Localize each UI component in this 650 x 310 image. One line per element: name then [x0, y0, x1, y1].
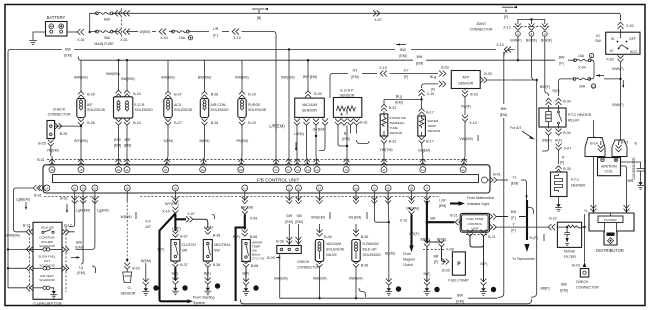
- label BW [F]: [559, 56, 565, 66]
- node igsw branch: [619, 78, 621, 80]
- rotor blob: [607, 233, 615, 236]
- connector B-37 bottom: [172, 261, 187, 268]
- fuse 20A: [573, 78, 596, 89]
- ignition coil: [598, 158, 621, 176]
- connector B-29 top: [239, 91, 256, 98]
- ground number 4: [491, 287, 496, 292]
- svg-text:PURGE: PURGE: [248, 103, 261, 107]
- node jc2: [536, 79, 538, 81]
- wire A/F to F/B: [80, 126, 82, 156]
- svg-text:FILTER: FILTER: [564, 255, 576, 259]
- svg-text:From Malfunction: From Malfunction: [467, 196, 494, 200]
- wire jc2 down to ATP line: [532, 36, 535, 80]
- node bus drange: [355, 297, 357, 299]
- svg-text:E.G.R.P: E.G.R.P: [340, 89, 354, 93]
- heavy wire starter down to bottom: [160, 249, 187, 301]
- svg-text:L/R: L/R: [213, 27, 219, 31]
- svg-text:1H: 1H: [243, 186, 246, 190]
- wire L/R down to F/B pin: [242, 32, 277, 156]
- svg-text:[EM]: [EM]: [439, 204, 446, 208]
- svg-text:BW: BW: [457, 294, 463, 298]
- wire water temp sw feed: [244, 228, 246, 231]
- wire YL vertical: [584, 214, 586, 262]
- svg-text:10A: 10A: [578, 54, 585, 58]
- connector X-01 left: [77, 29, 85, 42]
- wire into ATP: [450, 74, 453, 84]
- svg-text:2B: 2B: [126, 186, 129, 190]
- svg-text:1T: 1T: [382, 168, 385, 172]
- water temp sensor: [418, 116, 441, 136]
- svg-text:2H: 2H: [81, 186, 84, 190]
- svg-text:BW(EM): BW(EM): [121, 77, 134, 81]
- connector chevrons ATP left: [439, 81, 446, 87]
- svg-text:B-26: B-26: [87, 93, 95, 97]
- svg-text:B-08: B-08: [251, 264, 259, 268]
- svg-text:To Tachometer: To Tachometer: [512, 257, 536, 261]
- connector B-17 water temp: [419, 108, 434, 116]
- wire intake feed across: [384, 98, 422, 100]
- svg-text:IGNITION: IGNITION: [601, 165, 617, 169]
- svg-text:B-25: B-25: [38, 142, 46, 146]
- svg-text:VW(EM): VW(EM): [459, 137, 472, 141]
- node vacuum feed on bus1: [288, 48, 290, 50]
- svg-text:20A: 20A: [579, 85, 586, 89]
- arrow From starting: [186, 300, 189, 302]
- igniter leads: [605, 213, 617, 233]
- chevrons row2: [26, 265, 69, 271]
- svg-text:B-22: B-22: [549, 217, 557, 221]
- svg-text:For A/T: For A/T: [510, 126, 522, 130]
- svg-text:BR: BR: [434, 255, 439, 259]
- wires to B-39: [289, 224, 298, 246]
- svg-text:B-01: B-01: [493, 173, 501, 177]
- long A/T vertical wire: [531, 80, 537, 297]
- connector B-20 into pump: [442, 259, 450, 273]
- EGRP sensor label: [340, 89, 355, 98]
- connector vacuum bottom chevrons: [294, 119, 328, 126]
- svg-text:ACV: ACV: [174, 103, 182, 107]
- svg-text:R(F): R(F): [552, 89, 559, 93]
- heavy wire clutch ground: [174, 268, 176, 281]
- wire row1: [8, 248, 26, 250]
- svg-text:B-26: B-26: [87, 121, 95, 125]
- svg-text:B-27: B-27: [174, 121, 182, 125]
- arrow LgR: [66, 204, 68, 213]
- svg-text:[F]: [F]: [504, 15, 508, 19]
- svg-text:[EM]: [EM]: [560, 289, 567, 293]
- vacuum solenoid valve label: [326, 242, 345, 257]
- connector B-36 top: [353, 230, 368, 240]
- svg-text:IDLE-UP: IDLE-UP: [363, 248, 378, 252]
- svg-text:[EM]: [EM]: [500, 113, 507, 117]
- svg-text:BW: BW: [628, 179, 634, 183]
- svg-text:B-38: B-38: [213, 263, 221, 267]
- svg-text:Magnet: Magnet: [403, 258, 415, 262]
- svg-text:B-37: B-37: [180, 263, 188, 267]
- wires EGRP down: [338, 126, 357, 157]
- node YL: [583, 226, 585, 228]
- svg-text:IGNITER: IGNITER: [604, 218, 617, 222]
- svg-text:System: System: [193, 301, 205, 305]
- arrow L(EM): [295, 142, 297, 151]
- svg-text:[F]: [F]: [511, 216, 515, 220]
- svg-text:F/B CONTROL UNIT: F/B CONTROL UNIT: [257, 178, 300, 183]
- wire to X-04: [152, 31, 156, 33]
- wire W(EM) line: [127, 31, 138, 33]
- connector B-34 bottom: [546, 127, 571, 135]
- second bus continues: [426, 59, 555, 61]
- wire water temp to F/B: [422, 144, 423, 157]
- ground number 24: [215, 283, 220, 288]
- svg-text:BW(EM): BW(EM): [74, 76, 87, 80]
- svg-text:BW: BW: [511, 210, 517, 214]
- svg-text:1Y: 1Y: [274, 168, 277, 172]
- idle sw: [41, 226, 54, 234]
- wire GY continues: [362, 73, 377, 75]
- svg-text:1U: 1U: [421, 168, 424, 172]
- wire gy elbow: [319, 148, 325, 151]
- distributor arm chevrons: [590, 205, 596, 212]
- diamond symbol: [608, 238, 614, 244]
- svg-text:FUEL PUMP: FUEL PUMP: [448, 279, 469, 283]
- connector B-03: [124, 263, 140, 271]
- wire neutral ground: [207, 268, 209, 281]
- wire Lg from F/B pin to row2: [82, 201, 84, 240]
- svg-text:INTAKE AIR: INTAKE AIR: [390, 116, 407, 120]
- long BW vertical to bottom bus: [498, 118, 504, 298]
- svg-text:CHECK: CHECK: [576, 280, 589, 284]
- wire IG SW down: [620, 62, 622, 140]
- svg-text:SENSOR: SENSOR: [428, 129, 442, 133]
- check connector B-23 label: [576, 280, 599, 290]
- svg-text:SENSOR: SENSOR: [121, 292, 136, 296]
- ground clutch: [172, 278, 179, 295]
- wire B-39 ground to bus: [279, 254, 281, 299]
- svg-text:12: 12: [435, 288, 439, 292]
- wires EGR to F/B: [119, 126, 128, 157]
- svg-text:BW(EM): BW(EM): [106, 72, 119, 76]
- connector X-10 gr: [400, 208, 415, 223]
- label BW [EM] on bus: [64, 48, 71, 58]
- svg-text:1K: 1K: [73, 186, 76, 190]
- svg-text:SOLENOID: SOLENOID: [135, 108, 154, 112]
- svg-text:BW(EM): BW(EM): [235, 76, 248, 80]
- label BW [F]: [511, 210, 517, 220]
- svg-text:X-12: X-12: [503, 26, 511, 30]
- svg-text:SOLENOID: SOLENOID: [174, 108, 193, 112]
- bottom bus continues: [468, 297, 498, 299]
- bus BW(EM) second level: [81, 59, 413, 61]
- O2 sensor symbol: [123, 270, 132, 283]
- wire intake to F/B: [383, 144, 385, 157]
- clutch switch label: [182, 243, 197, 253]
- connector X-10 clutch: [162, 207, 178, 214]
- svg-text:GY: GY: [352, 69, 358, 73]
- svg-text:VACUUM: VACUUM: [302, 103, 317, 107]
- svg-text:HEATER: HEATER: [571, 184, 586, 188]
- wire W(EM) dashed A/T: [120, 201, 131, 260]
- condenser: [621, 162, 645, 189]
- svg-text:X-04: X-04: [578, 66, 586, 70]
- bracket B-14: [585, 138, 605, 157]
- arrow down igsw wire: [622, 80, 624, 88]
- wire B(EM) from pin 374: [374, 201, 388, 222]
- svg-text:P.T.C HEATER: P.T.C HEATER: [568, 113, 592, 117]
- svg-text:G0[EM]: G0[EM]: [418, 149, 430, 153]
- dashed line above F/B unit: [47, 159, 468, 161]
- connector B-08 bottom: [243, 261, 258, 269]
- wire LgB to carb idle sw: [14, 224, 27, 232]
- wire PURGE drop: [241, 60, 243, 91]
- fuse 10A: [568, 53, 594, 79]
- node EGRP join: [346, 145, 348, 147]
- label BL [EM]: [342, 132, 349, 142]
- svg-text:[F]: [F]: [560, 161, 564, 165]
- chevron row out of F/B bottom: [72, 197, 430, 204]
- svg-text:X-07: X-07: [374, 18, 382, 22]
- node vacuum sensor feed on bus2: [307, 59, 309, 61]
- heavy wire waterT / starter: [236, 215, 245, 302]
- svg-text:[EM]: [EM]: [416, 62, 423, 66]
- connector X-07 on top bus: [373, 10, 382, 22]
- svg-text:X-02: X-02: [626, 24, 634, 28]
- svg-text:IDLE SW: IDLE SW: [41, 226, 54, 230]
- svg-text:2F: 2F: [125, 168, 128, 172]
- check connector text: [48, 108, 71, 117]
- fuel pump control unit: [460, 213, 489, 232]
- wire loop stub: [483, 244, 485, 247]
- carb connector dashed left: [29, 226, 31, 292]
- wire pin stubs top row: [52, 156, 465, 164]
- svg-text:L/R(EM): L/R(EM): [269, 124, 285, 129]
- connector FP out bottom: [490, 224, 497, 230]
- wire B-21 loop: [470, 237, 484, 282]
- svg-text:TEMP: TEMP: [428, 124, 436, 128]
- bus BW(EM) continues right: [411, 48, 496, 50]
- connector B-26 top: [78, 91, 95, 98]
- ATP sensor: [451, 71, 480, 89]
- svg-text:BW: BW: [501, 107, 507, 111]
- svg-text:17: 17: [397, 288, 401, 292]
- svg-text:B-01: B-01: [60, 197, 68, 201]
- check connector B-39 box: [277, 246, 302, 254]
- slow fuel cut solenoid: [33, 255, 62, 270]
- svg-text:10: 10: [154, 287, 158, 291]
- joint connector dashed row: [513, 26, 550, 28]
- PTC heater B-35: [551, 172, 568, 197]
- svg-text:X-10: X-10: [469, 121, 477, 125]
- label From Starting System: [193, 296, 215, 306]
- fuse 15A: [169, 30, 209, 40]
- svg-text:CHECK: CHECK: [297, 260, 310, 264]
- connector B-36 bottom: [353, 261, 368, 268]
- PTC heater label: [571, 178, 586, 188]
- connector B-28 bottom: [202, 118, 219, 126]
- heavy wire to tach junction: [519, 216, 527, 218]
- label GY [EM]: [351, 69, 358, 79]
- wires vacuum sensor to F/B: [297, 126, 325, 157]
- svg-text:SENSOR: SENSOR: [302, 109, 317, 113]
- noise filter label: [564, 250, 576, 260]
- svg-text:30A: 30A: [104, 36, 111, 40]
- svg-text:L(EM): L(EM): [294, 132, 304, 136]
- ground inside carb: [50, 288, 57, 298]
- svg-text:COIL: COIL: [605, 170, 613, 174]
- ground battery: [29, 32, 45, 45]
- label Blg [EM]: [395, 95, 402, 105]
- svg-text:BW(EM): BW(EM): [313, 277, 326, 281]
- ground number 8: [253, 285, 258, 290]
- wire vacuum sensor feed: [307, 60, 309, 90]
- svg-text:B-27: B-27: [174, 93, 182, 97]
- svg-text:W(EM): W(EM): [139, 30, 150, 34]
- intake air temp sensor: [380, 114, 406, 136]
- svg-text:BW [EM]: BW [EM]: [303, 75, 317, 79]
- connector into noise filter: [548, 224, 555, 230]
- wire 20A line from igsw node: [604, 78, 621, 80]
- node battery feed: [89, 31, 91, 33]
- svg-text:BW: BW: [400, 48, 406, 52]
- node top bus to fuse: [112, 31, 118, 33]
- arrow B-23 up: [583, 262, 587, 267]
- svg-text:SENSOR: SENSOR: [390, 131, 404, 135]
- svg-text:[EM]: [EM]: [399, 54, 406, 58]
- svg-text:Lg(F): Lg(F): [172, 227, 180, 231]
- connector B-30: [305, 91, 322, 98]
- connector X-01 dashed boundary: [120, 8, 122, 38]
- svg-text:BW(EM): BW(EM): [161, 76, 174, 80]
- svg-text:[EM]: [EM]: [295, 220, 302, 224]
- svg-text:R: R: [562, 156, 565, 160]
- vacuum sensor: [295, 98, 325, 117]
- svg-text:YB[EM]: YB[EM]: [46, 149, 58, 153]
- svg-text:CLUTCH: CLUTCH: [182, 243, 197, 247]
- svg-text:WG(EM): WG(EM): [311, 216, 325, 220]
- wire 388 down: [387, 201, 390, 281]
- svg-text:For: For: [146, 220, 152, 224]
- connector X-07 relay out: [556, 143, 572, 151]
- connector B-01 left exit: [33, 185, 45, 198]
- wire YL out: [497, 179, 508, 181]
- ground O2 area: [142, 279, 149, 296]
- wire Blg hook from ATP: [422, 84, 438, 88]
- svg-text:[EM]: [EM]: [114, 144, 121, 148]
- connector B-28 top: [202, 91, 219, 98]
- svg-text:Y(EM): Y(EM): [163, 139, 173, 143]
- connector B-37 top: [172, 231, 187, 239]
- svg-text:BR(F): BR(F): [542, 139, 551, 143]
- svg-text:BW(EM): BW(EM): [349, 277, 362, 281]
- coasting richer solenoid: [33, 236, 62, 252]
- carb connector dashed right: [65, 226, 67, 292]
- svg-text:2D: 2D: [93, 186, 96, 190]
- wire row1 into box jog: [26, 248, 33, 250]
- heavy wire neutral branch: [175, 218, 186, 220]
- svg-text:TURE: TURE: [390, 126, 398, 130]
- heavy wire magnet clutch: [410, 215, 412, 247]
- label BW [EM] vac: [303, 75, 317, 79]
- label BW [EM] on second bus: [416, 55, 423, 65]
- svg-text:WATER: WATER: [428, 119, 439, 123]
- joint connector bracket: [518, 18, 545, 24]
- svg-text:[F]: [F]: [213, 34, 217, 38]
- svg-text:[EM]: [EM]: [342, 137, 349, 141]
- svg-text:1D: 1D: [164, 168, 167, 172]
- connector B-24 top: [116, 90, 141, 97]
- node jc1 bus2: [517, 59, 519, 61]
- svg-text:B-28: B-28: [211, 93, 219, 97]
- check connector label: [297, 260, 320, 270]
- connector B-33 right: [480, 72, 492, 83]
- svg-text:B-17: B-17: [426, 111, 434, 115]
- svg-text:BW: BW: [65, 48, 71, 52]
- bus BW(EM) continues: [74, 48, 395, 50]
- svg-text:B(F): B(F): [481, 262, 488, 266]
- svg-text:AIR CON.: AIR CON.: [211, 103, 227, 107]
- wire ACV drop: [167, 60, 169, 91]
- wire PURGE to F/B: [241, 126, 243, 157]
- svg-text:X-62: X-62: [606, 58, 614, 62]
- arrow YL down: [525, 196, 527, 200]
- fuse 80A: [96, 12, 114, 22]
- svg-text:[F]: [F]: [559, 62, 563, 66]
- marker B [F] right: [502, 6, 517, 19]
- labels BR(F) R(F): [542, 139, 562, 143]
- F/B bottom row pins: [44, 185, 430, 191]
- svg-text:2E: 2E: [117, 168, 120, 172]
- svg-text:CHECK: CHECK: [53, 108, 66, 112]
- svg-text:B-28: B-28: [211, 121, 219, 125]
- svg-text:B-29: B-29: [248, 121, 256, 125]
- svg-text:SW: SW: [595, 39, 601, 43]
- svg-text:B-23: B-23: [572, 264, 580, 268]
- distributor body: [589, 207, 634, 245]
- wire B/B from F/B pin: [76, 201, 95, 249]
- svg-text:(F): (F): [431, 88, 436, 92]
- node hv branch: [244, 226, 247, 229]
- connector X-09: [242, 208, 257, 221]
- svg-text:B-24: B-24: [133, 121, 141, 125]
- svg-text:GY: GY: [403, 69, 409, 73]
- wire A/F solenoid drop: [80, 60, 82, 91]
- bracket B-15: [612, 140, 627, 157]
- svg-text:Clutch: Clutch: [403, 263, 413, 267]
- svg-text:B-25: B-25: [60, 132, 68, 136]
- svg-text:ACC: ACC: [630, 50, 638, 54]
- connector chevrons ATP GY input: [439, 66, 449, 77]
- svg-text:DISTRIBUTOR: DISTRIBUTOR: [596, 248, 624, 253]
- svg-text:17°C ON: 17°C ON: [252, 257, 264, 261]
- svg-text:SENSOR: SENSOR: [340, 94, 355, 98]
- connector B-39 chevrons: [276, 237, 301, 244]
- svg-text:E.G.R.: E.G.R.: [135, 103, 146, 107]
- svg-text:BW(EM): BW(EM): [198, 76, 211, 80]
- clutch switch: [171, 240, 180, 262]
- svg-text:8: 8: [255, 287, 257, 291]
- svg-text:[EM]: [EM]: [124, 144, 131, 148]
- svg-text:B/Y(EM): B/Y(EM): [165, 202, 178, 206]
- ground neutral: [204, 278, 211, 295]
- svg-text:B-34: B-34: [563, 131, 571, 135]
- svg-text:A/T: A/T: [146, 225, 152, 229]
- label YL [EM]: [511, 176, 518, 186]
- neutral switch: [203, 240, 212, 262]
- svg-text:GY(EM): GY(EM): [313, 128, 326, 132]
- svg-text:2S: 2S: [318, 186, 321, 190]
- connector X-10 water: [419, 89, 435, 108]
- wire intake down: [383, 99, 385, 104]
- arrow For A/T: [522, 131, 535, 140]
